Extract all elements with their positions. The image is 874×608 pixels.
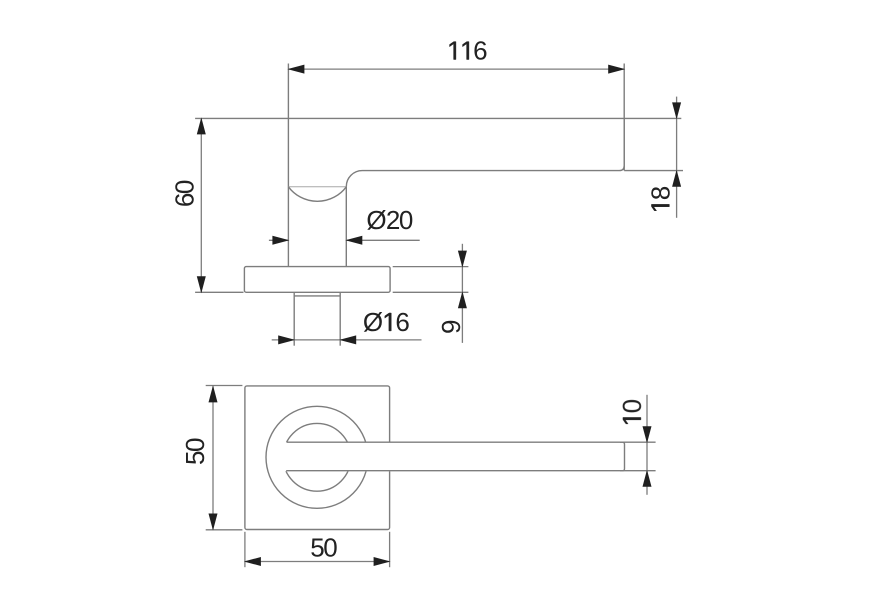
svg-text:8: 8 (645, 186, 675, 200)
svg-text:6: 6 (473, 36, 487, 66)
svg-text:0: 0 (617, 399, 647, 413)
svg-text:0: 0 (323, 532, 337, 562)
svg-text:Ø: Ø (366, 205, 386, 235)
svg-text:Ø: Ø (363, 307, 383, 337)
svg-text:0: 0 (170, 180, 200, 194)
svg-text:0: 0 (180, 438, 210, 452)
svg-text:9: 9 (436, 320, 466, 334)
svg-text:0: 0 (399, 205, 413, 235)
svg-text:6: 6 (395, 307, 409, 337)
